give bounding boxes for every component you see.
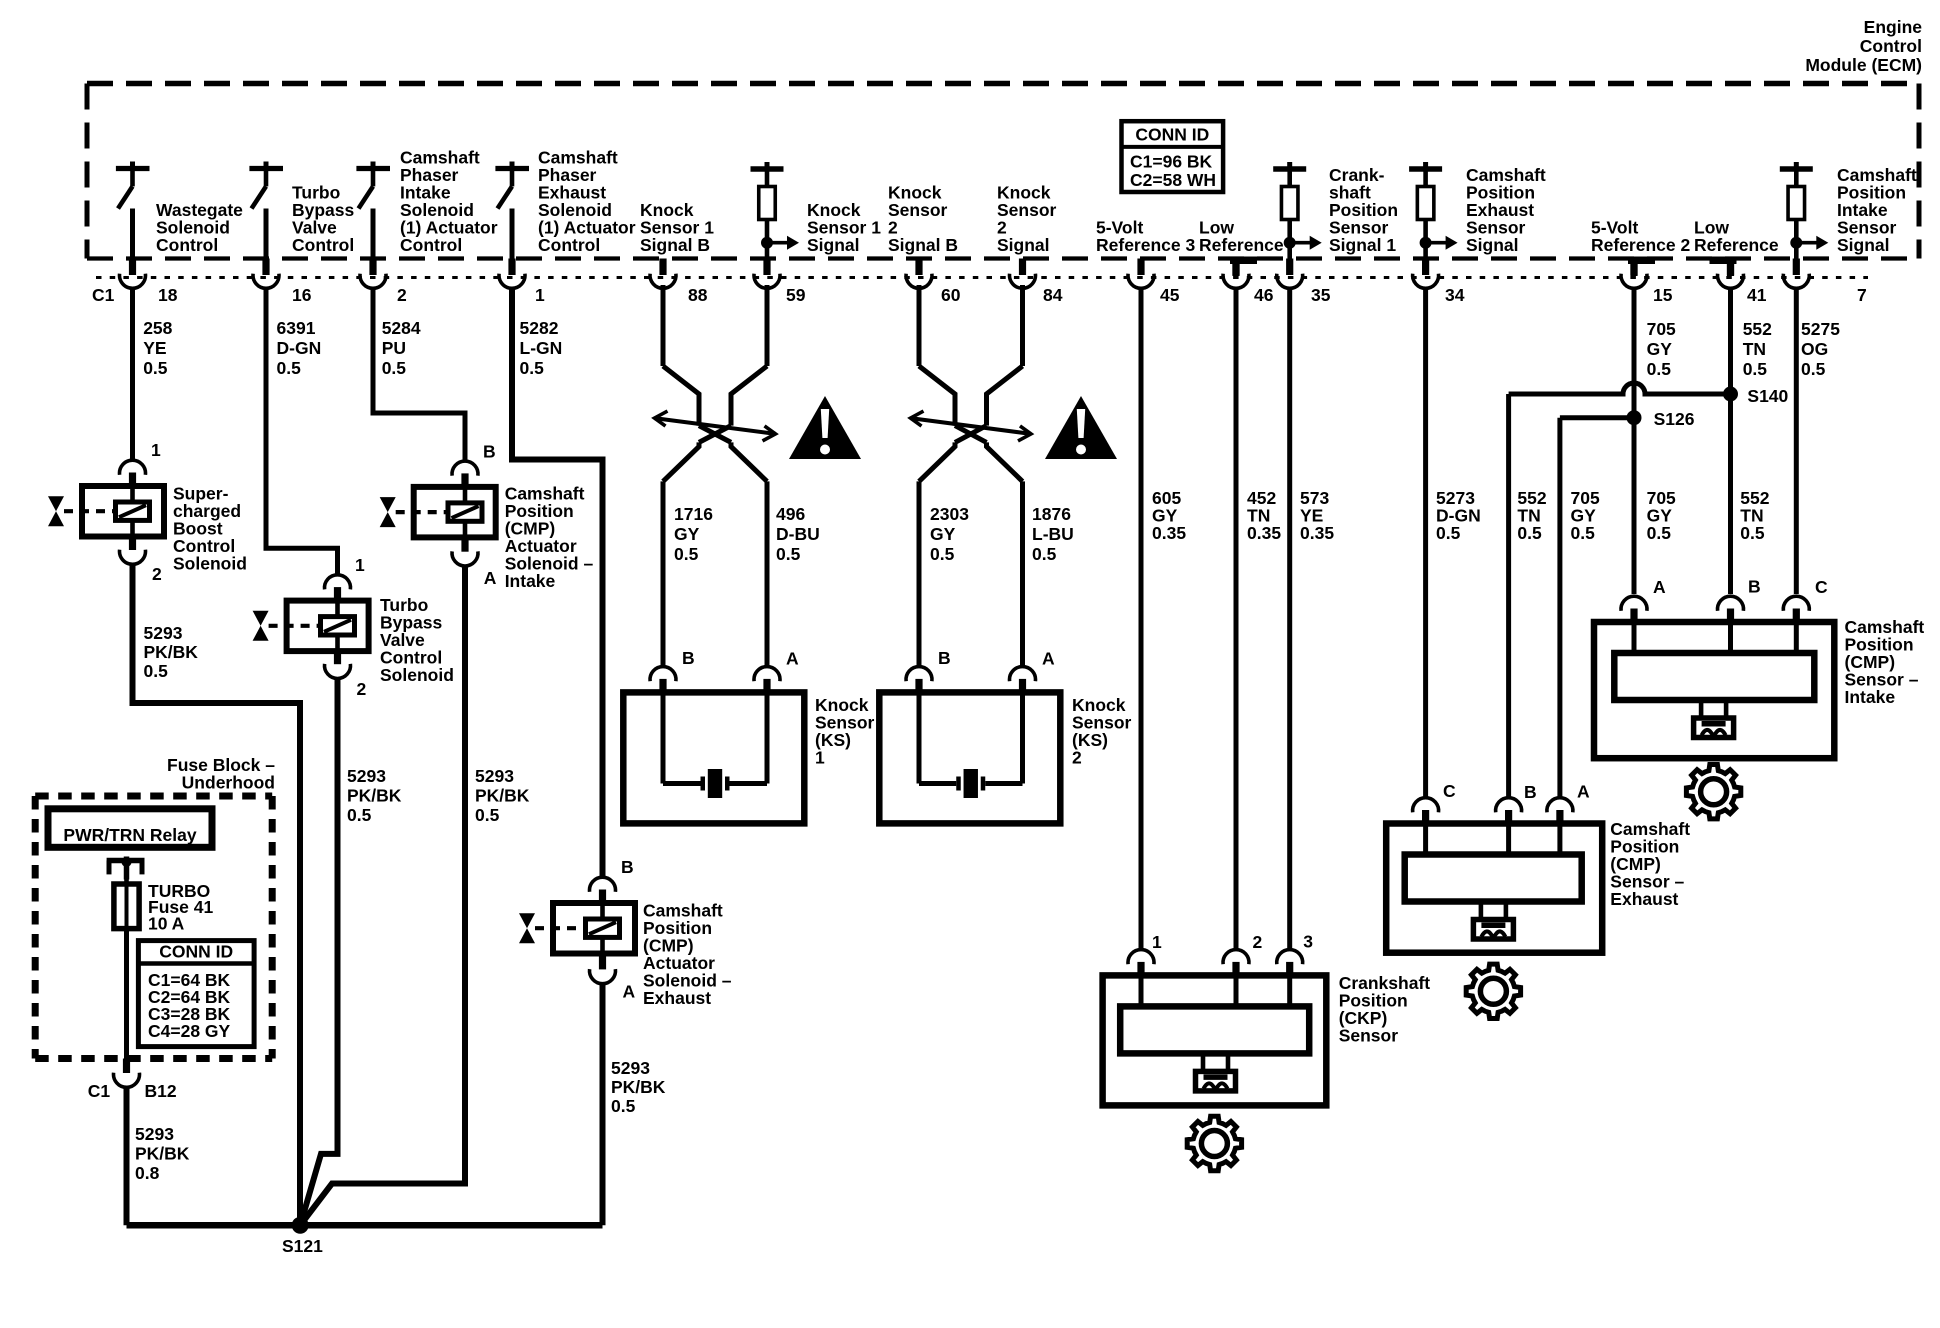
svg-text:C1: C1: [88, 1081, 111, 1101]
svg-text:Reference: Reference: [1694, 235, 1779, 255]
svg-text:2: 2: [152, 564, 162, 584]
svg-text:B: B: [483, 442, 496, 462]
svg-text:5293: 5293: [135, 1124, 174, 1144]
svg-text:PK/BK: PK/BK: [144, 642, 199, 662]
svg-text:A: A: [1653, 577, 1666, 597]
svg-text:0.5: 0.5: [776, 544, 801, 564]
svg-text:0.5: 0.5: [277, 358, 302, 378]
svg-text:2: 2: [357, 679, 367, 699]
svg-text:5284: 5284: [382, 318, 421, 338]
svg-text:0.8: 0.8: [135, 1163, 160, 1183]
svg-text:Signal: Signal: [807, 235, 860, 255]
svg-text:Engine: Engine: [1864, 17, 1923, 37]
svg-text:45: 45: [1160, 285, 1180, 305]
svg-text:0.35: 0.35: [1152, 523, 1186, 543]
svg-text:15: 15: [1653, 285, 1673, 305]
svg-text:PK/BK: PK/BK: [347, 786, 402, 806]
svg-text:C1=96 BK: C1=96 BK: [1130, 152, 1213, 172]
svg-text:C: C: [1443, 781, 1456, 801]
svg-text:L-GN: L-GN: [520, 338, 563, 358]
svg-text:0.5: 0.5: [1740, 523, 1765, 543]
svg-text:A: A: [1042, 649, 1055, 669]
svg-text:7: 7: [1857, 285, 1867, 305]
svg-text:16: 16: [292, 285, 312, 305]
svg-text:B: B: [621, 857, 634, 877]
svg-text:PU: PU: [382, 338, 406, 358]
svg-text:1716: 1716: [674, 504, 713, 524]
svg-text:PK/BK: PK/BK: [135, 1144, 190, 1164]
svg-text:46: 46: [1254, 285, 1274, 305]
svg-text:2303: 2303: [930, 504, 969, 524]
svg-text:0.35: 0.35: [1300, 523, 1334, 543]
svg-text:34: 34: [1445, 285, 1465, 305]
svg-text:Signal: Signal: [1466, 235, 1519, 255]
svg-text:GY: GY: [1647, 339, 1673, 359]
svg-text:A: A: [623, 982, 636, 1002]
svg-text:0.5: 0.5: [1571, 523, 1596, 543]
svg-text:84: 84: [1043, 285, 1063, 305]
svg-text:1: 1: [815, 748, 825, 768]
svg-text:Intake: Intake: [505, 571, 556, 591]
svg-text:B: B: [682, 648, 695, 668]
svg-text:1: 1: [355, 555, 365, 575]
svg-text:A: A: [484, 568, 497, 588]
svg-text:60: 60: [941, 285, 961, 305]
svg-text:0.5: 0.5: [1647, 523, 1672, 543]
svg-text:Solenoid: Solenoid: [380, 665, 454, 685]
svg-text:496: 496: [776, 504, 805, 524]
svg-text:C2=58 WH: C2=58 WH: [1130, 170, 1216, 190]
svg-text:B: B: [1748, 577, 1761, 597]
svg-text:0.5: 0.5: [1032, 544, 1057, 564]
svg-text:PK/BK: PK/BK: [475, 786, 530, 806]
svg-text:5275: 5275: [1801, 319, 1840, 339]
svg-text:Reference: Reference: [1199, 235, 1284, 255]
svg-text:0.5: 0.5: [611, 1096, 636, 1116]
svg-text:0.5: 0.5: [1743, 359, 1768, 379]
svg-text:Signal: Signal: [1837, 235, 1890, 255]
svg-text:0.5: 0.5: [520, 358, 545, 378]
svg-text:10 A: 10 A: [148, 914, 185, 934]
svg-text:5293: 5293: [347, 766, 386, 786]
svg-text:Control: Control: [1860, 36, 1922, 56]
svg-text:0.5: 0.5: [1801, 359, 1826, 379]
svg-text:6391: 6391: [277, 318, 316, 338]
svg-text:59: 59: [786, 285, 806, 305]
svg-text:0.5: 0.5: [347, 805, 372, 825]
svg-text:18: 18: [158, 285, 178, 305]
svg-text:GY: GY: [674, 524, 700, 544]
svg-text:0.5: 0.5: [674, 544, 699, 564]
svg-text:1876: 1876: [1032, 504, 1071, 524]
svg-text:CONN ID: CONN ID: [1135, 125, 1209, 145]
svg-text:Intake: Intake: [1845, 687, 1896, 707]
svg-text:Exhaust: Exhaust: [643, 988, 711, 1008]
svg-text:Sensor: Sensor: [1339, 1026, 1399, 1046]
svg-text:Underhood: Underhood: [182, 773, 275, 793]
svg-text:Reference 2: Reference 2: [1591, 235, 1690, 255]
svg-text:5282: 5282: [520, 318, 559, 338]
svg-text:YE: YE: [143, 338, 166, 358]
svg-text:GY: GY: [930, 524, 956, 544]
svg-text:C1: C1: [92, 285, 115, 305]
svg-text:0.5: 0.5: [143, 358, 168, 378]
svg-text:PK/BK: PK/BK: [611, 1077, 666, 1097]
svg-text:1: 1: [535, 285, 545, 305]
svg-text:Control: Control: [538, 235, 600, 255]
svg-text:Control: Control: [400, 235, 462, 255]
svg-text:41: 41: [1747, 285, 1767, 305]
svg-text:552: 552: [1743, 319, 1772, 339]
svg-text:0.35: 0.35: [1247, 523, 1281, 543]
svg-text:Signal 1: Signal 1: [1329, 235, 1396, 255]
svg-text:B: B: [938, 648, 951, 668]
svg-text:0.5: 0.5: [475, 805, 500, 825]
svg-text:0.5: 0.5: [930, 544, 955, 564]
svg-text:5293: 5293: [144, 623, 183, 643]
svg-text:258: 258: [143, 318, 172, 338]
svg-text:S121: S121: [282, 1236, 323, 1256]
svg-text:35: 35: [1311, 285, 1331, 305]
svg-text:C4=28 GY: C4=28 GY: [148, 1021, 231, 1041]
svg-text:A: A: [786, 649, 799, 669]
svg-text:Signal: Signal: [997, 235, 1050, 255]
svg-text:0.5: 0.5: [1647, 359, 1672, 379]
svg-text:PWR/TRN Relay: PWR/TRN Relay: [63, 825, 196, 845]
svg-text:2: 2: [397, 285, 407, 305]
svg-text:3: 3: [1303, 932, 1313, 952]
svg-text:TN: TN: [1743, 339, 1766, 359]
svg-text:0.5: 0.5: [1517, 523, 1542, 543]
svg-text:B: B: [1524, 782, 1537, 802]
svg-text:S126: S126: [1654, 409, 1695, 429]
svg-text:D-BU: D-BU: [776, 524, 820, 544]
svg-text:5293: 5293: [475, 766, 514, 786]
svg-text:S140: S140: [1747, 386, 1788, 406]
svg-text:0.5: 0.5: [144, 661, 169, 681]
svg-text:2: 2: [1072, 748, 1082, 768]
svg-text:Exhaust: Exhaust: [1610, 889, 1678, 909]
svg-text:1: 1: [1152, 932, 1162, 952]
svg-text:Reference 3: Reference 3: [1096, 235, 1195, 255]
svg-text:0.5: 0.5: [382, 358, 407, 378]
svg-text:0.5: 0.5: [1436, 523, 1461, 543]
svg-text:Module (ECM): Module (ECM): [1805, 55, 1922, 75]
svg-text:5293: 5293: [611, 1058, 650, 1078]
svg-text:Control: Control: [156, 235, 218, 255]
svg-text:Signal B: Signal B: [640, 235, 710, 255]
svg-text:2: 2: [1253, 932, 1263, 952]
svg-text:705: 705: [1647, 319, 1676, 339]
svg-text:A: A: [1577, 782, 1590, 802]
svg-text:CONN ID: CONN ID: [159, 942, 233, 962]
svg-text:Solenoid: Solenoid: [173, 554, 247, 574]
svg-text:Signal B: Signal B: [888, 235, 958, 255]
svg-text:L-BU: L-BU: [1032, 524, 1074, 544]
svg-text:OG: OG: [1801, 339, 1828, 359]
svg-text:88: 88: [688, 285, 708, 305]
svg-text:D-GN: D-GN: [277, 338, 322, 358]
svg-text:B12: B12: [145, 1081, 177, 1101]
svg-text:C: C: [1815, 577, 1828, 597]
svg-text:1: 1: [151, 440, 161, 460]
svg-text:Control: Control: [292, 235, 354, 255]
